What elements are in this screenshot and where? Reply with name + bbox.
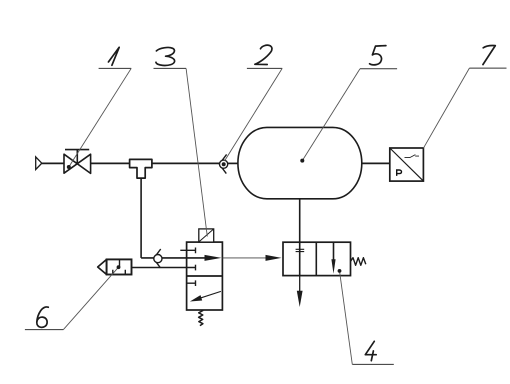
silencer 6 cone bbox=[98, 259, 107, 274]
label 1 underline bbox=[99, 67, 132, 69]
label 2 underline bbox=[247, 67, 282, 69]
check valve 2 ball bbox=[220, 160, 228, 168]
pilot valve 3 flow path arrow bbox=[187, 257, 207, 259]
tee fitting bbox=[130, 159, 152, 178]
relief valve 4 body bbox=[283, 242, 351, 275]
pilot valve 3 closed port C bbox=[187, 280, 196, 286]
wire tee down bbox=[140, 178, 142, 258]
label 4 leader bbox=[340, 271, 353, 365]
label 6 digit bbox=[37, 307, 49, 327]
label 6 underline bbox=[25, 329, 64, 331]
label 1 digit bbox=[108, 47, 119, 65]
wire tee to check valve 2 bbox=[152, 162, 220, 164]
label 1 leader bbox=[69, 68, 131, 167]
label 4 underline bbox=[352, 363, 394, 365]
relief valve 4 exhaust wire below bbox=[299, 276, 301, 292]
relief valve 4 down arrow on divider bbox=[333, 242, 335, 262]
label 3 underline bbox=[154, 67, 187, 69]
relief valve 4 exhaust arrowhead bbox=[297, 291, 303, 307]
label 3 leader bbox=[186, 68, 207, 236]
label 3 digit bbox=[156, 47, 175, 65]
wire silencer 6 to valve 3 port B bbox=[132, 267, 196, 269]
label 5 leader bbox=[302, 69, 360, 161]
relief valve 4 divider bbox=[315, 242, 317, 275]
pilot valve 3 spring bbox=[199, 310, 204, 325]
inlet arrow (supply port) bbox=[36, 157, 42, 170]
label 7 digit bbox=[483, 46, 495, 65]
label 5 digit bbox=[370, 46, 386, 65]
arrow into valve 4 bbox=[266, 255, 282, 261]
silencer 6 body bbox=[107, 259, 132, 274]
label 5 underline bbox=[360, 68, 397, 70]
pilot valve 3 closed port A bbox=[180, 248, 195, 254]
label 6 leader bbox=[63, 267, 118, 329]
pilot valve 3 midline bbox=[187, 275, 223, 277]
wire bend to valve 3 inlet bbox=[141, 257, 187, 259]
shut-off valve 1 (bowtie) bbox=[64, 150, 91, 174]
wire receiver to pressure switch 7 bbox=[362, 162, 390, 164]
silencer 6 divider bbox=[119, 259, 121, 267]
check valve (pilot inlet) seat bbox=[154, 249, 161, 268]
receiver 5 (air tank) bbox=[238, 127, 362, 198]
pressure switch 7 body bbox=[390, 148, 424, 181]
check valve (pilot inlet) ball bbox=[154, 255, 162, 263]
label 7 leader bbox=[423, 68, 469, 148]
label 6 dot bbox=[117, 265, 121, 269]
pilot valve 3 exhaust arrow bbox=[198, 291, 221, 298]
pilot valve 3 pilot box bbox=[199, 229, 214, 242]
pilot valve 3 closed port B tick bbox=[195, 265, 197, 271]
label 4 digit bbox=[365, 341, 376, 360]
relief valve 4 inner line from receiver bbox=[299, 242, 301, 275]
label 2 dot bbox=[222, 162, 226, 166]
label 2 leader bbox=[225, 68, 283, 161]
relief valve 4 spring bbox=[351, 258, 366, 266]
pressure switch 7 letter P bbox=[397, 170, 402, 176]
pilot valve 3 body bbox=[187, 242, 223, 310]
pressure switch 7 contact symbol bbox=[405, 155, 420, 158]
label 5 dot bbox=[300, 159, 304, 163]
pressure switch 7 diagonal bbox=[390, 149, 423, 181]
wire valve 3 to valve 4 (thin) bbox=[222, 257, 267, 259]
label 7 underline bbox=[469, 67, 506, 69]
relief valve 4 diaphragm bars bbox=[296, 249, 305, 251]
label 1 dot bbox=[67, 165, 71, 169]
wire valve 1 to tee bbox=[91, 162, 130, 164]
check valve 2 seat bbox=[219, 154, 226, 173]
silencer 6 bottom ticks bbox=[113, 270, 126, 275]
pilot valve 3 pilot diagonal bbox=[199, 229, 213, 241]
wire inlet to valve 1 bbox=[42, 162, 64, 164]
wire check valve 2 to receiver bbox=[228, 162, 238, 164]
wire receiver bottom to valve 4 bbox=[299, 199, 301, 242]
label 4 dot bbox=[338, 269, 342, 273]
label 2 digit bbox=[255, 45, 272, 64]
